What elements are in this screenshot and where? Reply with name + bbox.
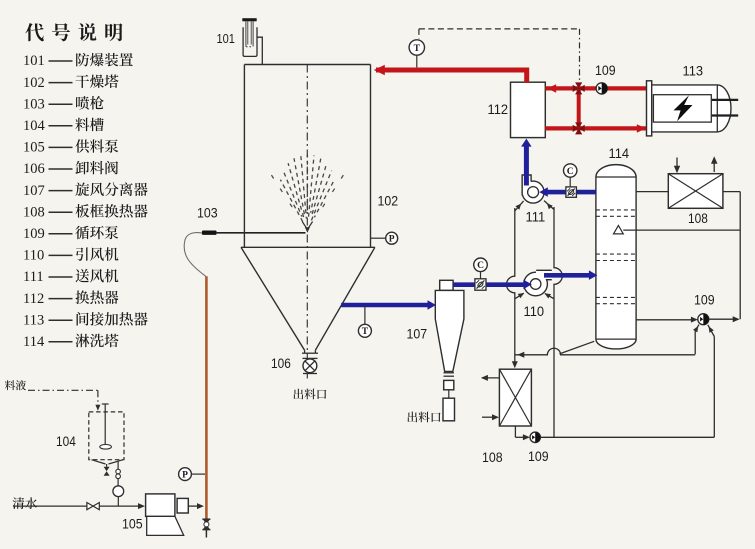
svg-text:T: T [362,327,369,337]
svg-text:109: 109 [23,226,45,242]
svg-text:110: 110 [23,248,44,264]
svg-text:112: 112 [488,101,509,117]
svg-text:104: 104 [23,118,46,134]
svg-text:104: 104 [56,434,76,449]
svg-text:111: 111 [23,269,44,285]
svg-text:103: 103 [197,205,218,221]
svg-text:106: 106 [271,356,291,371]
svg-text:109: 109 [694,292,715,308]
svg-text:T: T [414,44,421,54]
svg-text:113: 113 [683,63,704,79]
svg-text:109: 109 [528,448,549,464]
svg-text:110: 110 [524,303,545,319]
svg-text:C: C [477,261,484,271]
svg-text:107: 107 [407,326,428,342]
svg-text:P: P [389,235,395,245]
svg-text:105: 105 [122,516,143,532]
svg-text:105: 105 [23,140,45,156]
svg-text:109: 109 [595,62,616,78]
svg-text:111: 111 [526,210,546,225]
svg-text:108: 108 [482,449,503,465]
svg-text:101: 101 [217,32,235,46]
svg-text:108: 108 [688,211,708,226]
svg-text:114: 114 [23,334,45,350]
svg-text:102: 102 [23,75,45,91]
svg-text:102: 102 [378,193,399,209]
svg-text:113: 113 [23,312,44,328]
svg-text:101: 101 [23,53,45,69]
svg-text:112: 112 [23,291,44,307]
svg-text:103: 103 [23,96,45,112]
svg-text:P: P [182,471,188,481]
svg-text:C: C [567,167,574,177]
svg-text:107: 107 [23,183,45,199]
svg-text:114: 114 [609,145,630,161]
svg-text:106: 106 [23,161,45,177]
svg-text:108: 108 [23,204,45,220]
